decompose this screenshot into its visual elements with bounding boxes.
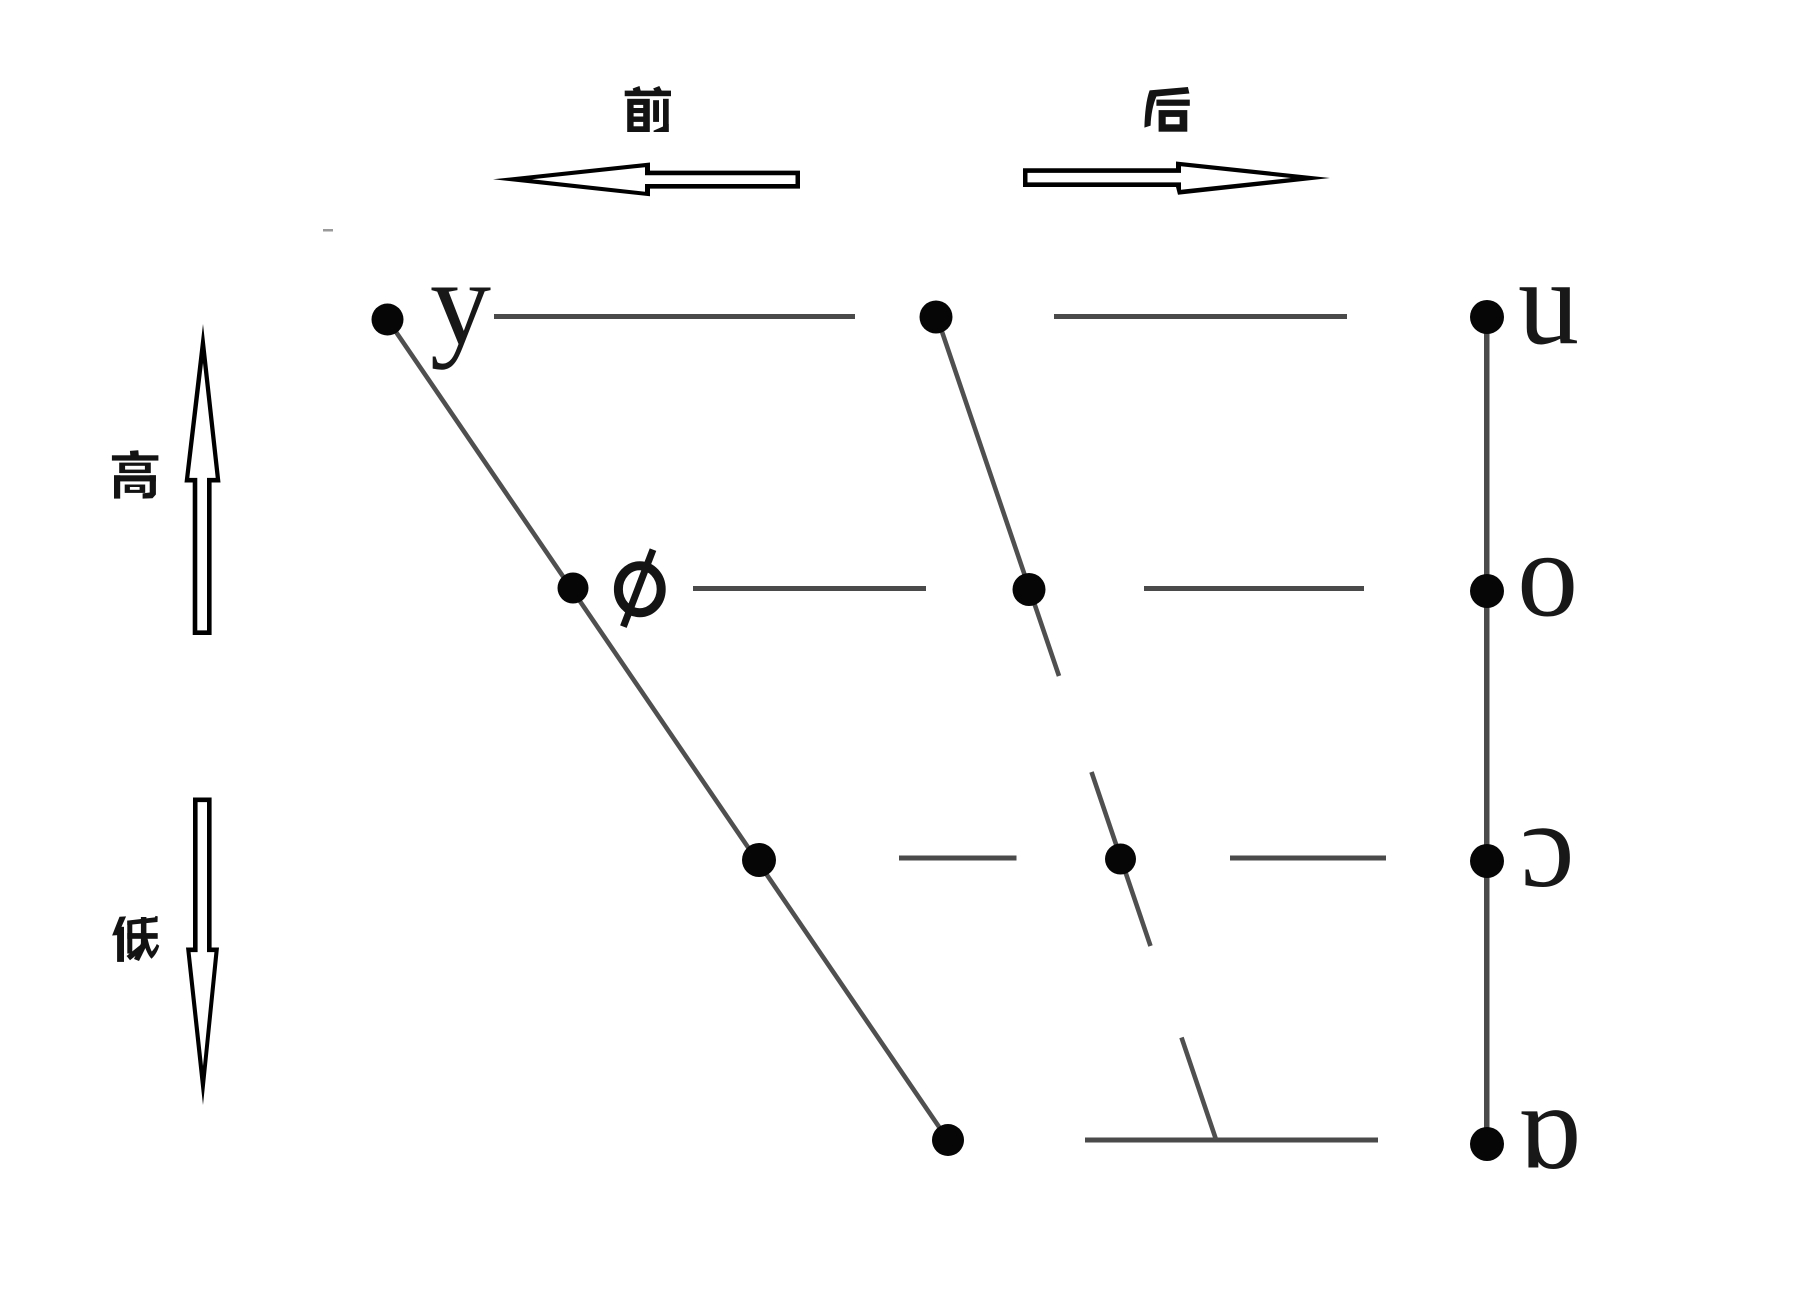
node mid row3 bbox=[1105, 844, 1136, 875]
wire row3 right (mid to open-o) bbox=[1230, 856, 1386, 861]
node row4 left bbox=[932, 1124, 964, 1156]
node mid row2 bbox=[1013, 573, 1046, 606]
label 前 (front) bbox=[625, 86, 671, 132]
svg-text:y: y bbox=[430, 236, 491, 371]
label 低 (low) bbox=[112, 916, 159, 962]
wire diagonal middle segment C bbox=[1182, 1038, 1217, 1140]
node front-mid top bbox=[920, 301, 953, 334]
label 后 (back) bbox=[1144, 87, 1189, 132]
stray mark top left bbox=[323, 229, 333, 232]
wire diagonal middle segment B bbox=[1092, 772, 1151, 946]
wire row1 left (y to mid) bbox=[494, 314, 855, 319]
node turned-alpha bbox=[1470, 1127, 1504, 1161]
wire row2 right (mid to o) bbox=[1144, 586, 1364, 591]
svg-text:ɒ: ɒ bbox=[1517, 1060, 1581, 1195]
arrow right (back direction) bbox=[1023, 162, 1330, 195]
wire row3 left (dot to mid) bbox=[899, 856, 1017, 861]
node ø bbox=[558, 573, 589, 604]
node y bbox=[372, 304, 404, 336]
wire diagonal middle segment A bbox=[937, 317, 1059, 676]
svg-text:o: o bbox=[1517, 508, 1578, 643]
wire diagonal left (y to bottom front dot) bbox=[388, 320, 949, 1141]
wire row1 right (mid to u) bbox=[1054, 314, 1347, 319]
node o bbox=[1470, 574, 1504, 608]
arrow down (low direction) bbox=[186, 798, 219, 1106]
node open-o bbox=[1470, 844, 1504, 878]
label ø (slashed o drawn) bbox=[618, 550, 661, 627]
wire row4 (dot to turned-alpha) bbox=[1085, 1138, 1378, 1143]
arrow left (front direction) bbox=[493, 163, 800, 197]
wire row2 left (ø to mid) bbox=[693, 586, 926, 591]
node u bbox=[1470, 300, 1504, 334]
wire right vertical (u-o-open-o-turned-alpha) bbox=[1484, 317, 1490, 1144]
node row3 left bbox=[742, 843, 776, 877]
svg-text:u: u bbox=[1518, 236, 1579, 371]
svg-text:ɔ: ɔ bbox=[1520, 778, 1574, 913]
arrow up (high direction) bbox=[185, 324, 221, 635]
label 高 (high) bbox=[112, 450, 158, 498]
